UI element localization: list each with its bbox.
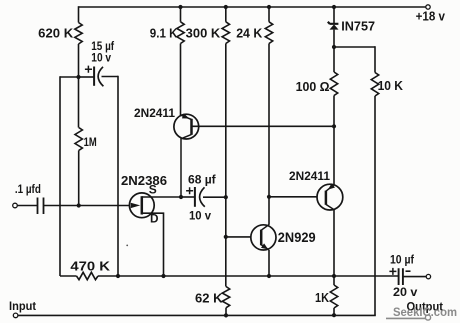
svg-text:S: S <box>149 182 157 196</box>
wire C 68uF to 300K branch <box>203 196 226 198</box>
transistor Q2 emitter arrow (PNP) <box>182 113 189 118</box>
wire R 24K to Q4 collector node <box>268 44 270 197</box>
transistor Q1 2N2386 bar <box>141 196 144 214</box>
svg-text:9.1 K: 9.1 K <box>150 27 178 41</box>
node Q4 collector / Q3 base <box>267 195 271 199</box>
wire C 10uF to output terminal <box>403 276 426 278</box>
svg-text:2N929: 2N929 <box>278 230 316 245</box>
node A (620K/15uF/1M junction) <box>76 75 80 79</box>
node Q4 emitter / bottom rail <box>267 274 271 278</box>
node Q4 base tap <box>224 235 228 239</box>
transistor Q4 2N929 bar <box>260 230 263 246</box>
terminal input signal <box>13 203 18 208</box>
diode D1 1N757 triangle <box>330 24 339 29</box>
wire Q2 base to 100R node <box>192 125 335 127</box>
svg-text:2N2411: 2N2411 <box>289 171 331 183</box>
resistor 470 K <box>77 272 98 279</box>
svg-text:62 K: 62 K <box>195 291 223 305</box>
svg-text:470 K: 470 K <box>70 259 110 273</box>
wire 68uF node down to Q4 base node <box>225 197 227 237</box>
wire rail to R 24K <box>268 7 270 22</box>
resistor 1M <box>75 128 82 151</box>
wire C .1uF to FET gate <box>44 205 130 207</box>
label 10uF minus sign <box>406 270 411 272</box>
wire node A to R 1M <box>78 77 80 128</box>
wire R 9.1K to Q2 emitter <box>180 44 182 116</box>
transistor Q2 2N2411 bar <box>190 119 193 135</box>
resistor 100 Ω <box>330 72 337 95</box>
wire rail corner down to R 620K <box>78 6 80 22</box>
capacitor C 15uF curved plate <box>98 67 103 86</box>
watermark SeekIC.com <box>386 307 457 320</box>
label 10uF plus sign <box>389 268 396 275</box>
wire input terminal to C .1uF <box>17 205 37 207</box>
wire R 300K down to 68uF node <box>225 44 227 198</box>
transistor Q3 2N2411 body <box>317 184 343 210</box>
resistor 9.1 K <box>177 22 184 44</box>
node top rail / 9.1K <box>178 5 182 9</box>
wire R 10K to ground rail <box>374 96 376 315</box>
capacitor C 68uF curved plate <box>200 187 205 207</box>
terminal input ground <box>13 313 18 318</box>
wire node A to C 15uF plate <box>79 76 95 78</box>
wire left bootstrap drop <box>59 76 61 276</box>
svg-text:10 K: 10 K <box>378 79 403 93</box>
capacitor C 10uF plates <box>399 268 403 285</box>
node top rail / 300K <box>224 5 228 9</box>
label 68uF plus sign <box>186 187 193 194</box>
wire zener node to R 100R <box>333 47 335 72</box>
wire 620K bottom to node A <box>78 44 80 77</box>
wire Q4 collector node to Q3 base <box>269 196 317 198</box>
wire Q3 collector to bottom rail <box>333 210 335 276</box>
wire FET drain lead <box>142 213 164 276</box>
wire R 100R to base node <box>333 96 335 127</box>
transistor Q1 2N2386 body <box>129 193 154 218</box>
capacitor C .1 µfd <box>38 198 44 215</box>
node gate (1M / input) <box>77 203 81 207</box>
wire Q4 base lead <box>226 236 251 238</box>
transistor Q3 2N2411 bar <box>325 191 328 205</box>
svg-text:1M: 1M <box>84 135 97 149</box>
label 15uF plus sign <box>85 66 92 73</box>
svg-text:20 v: 20 v <box>393 285 418 299</box>
resistor 620 K <box>75 23 82 44</box>
transistor Q3 emitter lead <box>326 185 334 191</box>
svg-text:100 Ω: 100 Ω <box>296 80 330 94</box>
wire zener node to 10K corner <box>334 46 375 48</box>
wire base node down to R 62K <box>225 237 227 287</box>
svg-text:24 K: 24 K <box>236 27 262 41</box>
wire R 1K to ground rail <box>333 308 335 315</box>
transistor Q1 2N2386 gate arrow <box>131 203 141 208</box>
wire FET source lead <box>142 196 181 198</box>
node 100R / Q2 base / Q3 emitter <box>332 124 336 128</box>
node FET drain / bottom rail <box>161 274 165 278</box>
wire corner to R 10K <box>374 46 376 72</box>
speck <box>126 245 128 247</box>
wire bottom rail main <box>98 275 398 277</box>
svg-text:+18 v: +18 v <box>416 9 445 23</box>
wire node A left to corner <box>60 76 79 78</box>
svg-text:Input: Input <box>9 299 36 313</box>
wire node to R 1K <box>333 276 335 285</box>
transistor Q3 emitter arrow (PNP) <box>328 183 335 189</box>
resistor 1K <box>330 285 337 308</box>
wire rail to R 300K <box>225 7 227 22</box>
capacitor C 68uF plus plate <box>194 187 196 207</box>
wire bottom rail left segment <box>60 275 77 277</box>
svg-text:.1 µfd: .1 µfd <box>15 182 41 196</box>
wire Q4 emitter to bottom rail <box>268 250 270 276</box>
node Q3 collector / R 1K / bottom rail <box>332 274 336 278</box>
terminal output <box>426 274 430 278</box>
wire node to C 68uF <box>181 196 195 198</box>
node zener / 100R / 10K <box>332 45 336 49</box>
svg-text:2N2386: 2N2386 <box>121 173 167 188</box>
transistor Q4 2N929 body <box>251 225 276 250</box>
transistor Q2 2N2411 body <box>174 114 199 139</box>
wire R 1M to gate node <box>78 151 80 206</box>
wire rail to R 9.1K <box>180 7 182 22</box>
resistor 10 K <box>371 73 378 96</box>
wire ground rail <box>18 314 376 316</box>
transistor Q4 emitter lead <box>261 245 269 250</box>
svg-text:68 µf: 68 µf <box>188 172 217 186</box>
wire Q4 collector lead drop <box>268 197 270 225</box>
diode D1 1N757 zener cathode bar <box>328 22 339 24</box>
svg-text:10 v: 10 v <box>189 209 211 223</box>
transistor Q4 emitter arrow (NPN) <box>261 243 268 249</box>
wire right bootstrap drop <box>117 76 119 276</box>
capacitor C 15uF plus plate <box>93 67 95 86</box>
svg-text:10 µf: 10 µf <box>390 253 415 267</box>
svg-text:10 v: 10 v <box>91 51 111 65</box>
transistor Q3 collector lead <box>326 204 334 209</box>
wire top +18V rail <box>79 6 426 8</box>
wire C 15uF to right corner <box>102 76 119 78</box>
wire rail to diode D1 <box>333 7 335 23</box>
node top rail / 24K <box>267 5 271 9</box>
terminal +18 v <box>426 5 430 9</box>
svg-text:620 K: 620 K <box>38 27 73 41</box>
node top rail / 1N757 <box>332 5 336 9</box>
resistor 62 K <box>222 287 229 308</box>
resistor 300 K <box>222 22 229 44</box>
svg-text:IN757: IN757 <box>341 19 375 33</box>
svg-text:2N2411: 2N2411 <box>134 108 176 120</box>
svg-text:300 K: 300 K <box>186 27 221 41</box>
transistor Q2 collector lead <box>181 134 192 197</box>
transistor Q2 emitter lead <box>181 115 192 120</box>
wire diode to zener node <box>333 30 335 47</box>
resistor 24 K <box>265 22 272 44</box>
node bootstrap drop / bottom rail <box>116 274 120 278</box>
svg-text:1K: 1K <box>315 291 329 305</box>
transistor Q4 collector lead <box>261 225 269 231</box>
node Q2 collector / FET source / C 68uF <box>179 195 183 199</box>
node 300K / C 68uF <box>224 195 228 199</box>
wire base node to Q3 emitter <box>333 126 335 185</box>
node 1K / ground rail <box>332 313 336 317</box>
node 62K / ground rail <box>224 313 228 317</box>
wire R 62K to ground rail <box>225 308 227 316</box>
